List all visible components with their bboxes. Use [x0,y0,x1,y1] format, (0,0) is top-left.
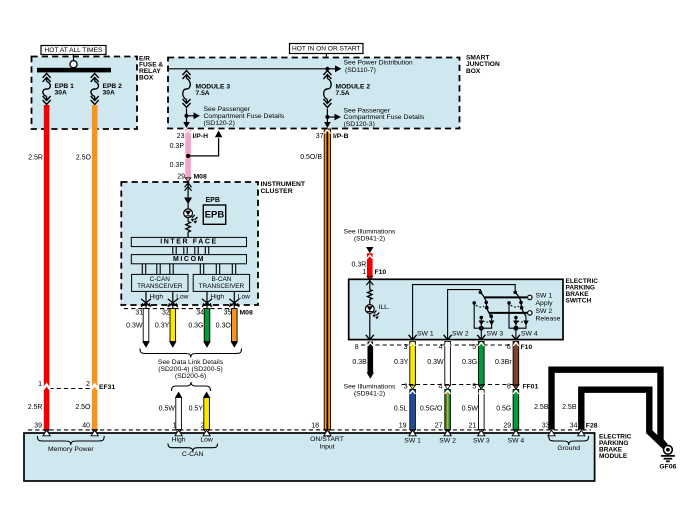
svg-text:TRANSCEIVER: TRANSCEIVER [137,283,183,290]
svg-text:F10: F10 [375,269,387,276]
wire 0.5W C-CAN high [159,392,183,434]
bus lines interface to micom [173,247,209,255]
svg-text:4: 4 [439,384,443,391]
svg-text:0.3Br: 0.3Br [495,359,512,366]
svg-text:SW 3: SW 3 [487,331,504,338]
svg-text:0.3G: 0.3G [188,323,203,330]
svg-text:ILL.: ILL. [379,304,390,311]
wire 0.3Y data link [155,309,177,348]
svg-text:High: High [211,293,225,300]
svg-text:0.5L: 0.5L [394,405,408,412]
svg-text:0.3B: 0.3B [352,359,367,366]
svg-text:GF06: GF06 [659,463,676,470]
pin 1 connector F10 top [362,269,386,276]
svg-text:High: High [172,436,186,443]
brace C-CAN from data link [172,382,211,391]
svg-text:INTER FACE: INTER FACE [160,239,218,246]
wire 0.3W switch SW2 [427,342,450,390]
wire from label to junction box [325,54,327,59]
svg-text:C-CAN: C-CAN [150,276,171,283]
wire 0.3G switch SW3 [462,342,484,390]
wire 0.5O/B pin 37 to module pin 18 [300,129,330,434]
svg-text:SW 2: SW 2 [452,331,469,338]
label HOT AT ALL TIMES [41,46,106,55]
switch internal wire SW2 [444,290,481,340]
svg-text:HOT IN ON OR START: HOT IN ON OR START [292,45,361,52]
svg-text:(SD941-2): (SD941-2) [354,236,385,243]
wire 0.5Y C-CAN low [189,392,211,434]
svg-text:Low: Low [200,436,213,443]
svg-text:I/P-B: I/P-B [333,133,349,140]
svg-text:6: 6 [507,384,511,391]
svg-text:See Data Link Details: See Data Link Details [158,359,224,366]
svg-text:1: 1 [38,381,42,388]
svg-text:30A: 30A [55,90,67,97]
svg-text:0.3W: 0.3W [427,359,444,366]
EPB telltale symbol [203,197,225,224]
wire module 3 fuse to pin 23 [183,109,190,129]
fuse EPB 2 30A [91,73,122,104]
pin 37 connector I/P-B [316,133,349,140]
svg-text:3: 3 [404,344,408,351]
svg-text:TRANSCEIVER: TRANSCEIVER [199,283,245,290]
svg-text:0.5G/O: 0.5G/O [420,405,443,412]
C-CAN high low labels [168,436,218,458]
svg-text:B-CAN: B-CAN [211,276,231,283]
svg-text:(SD200-6): (SD200-6) [175,373,206,380]
svg-text:Input: Input [319,443,334,450]
svg-text:See Power Distribution: See Power Distribution [344,60,413,67]
svg-text:0.3P: 0.3P [170,162,185,169]
node on 0.3P with arrow [186,131,222,158]
wire 0.5G to module SW4 [496,390,518,434]
svg-text:F28: F28 [586,422,598,429]
svg-text:27: 27 [435,422,443,429]
svg-text:0.3G: 0.3G [462,359,477,366]
svg-text:0.3Y: 0.3Y [394,359,409,366]
connector M08 cluster [124,309,253,317]
ground brace [549,436,589,452]
svg-text:High: High [150,293,164,300]
node see power distribution [325,60,413,74]
svg-text:Release: Release [536,316,561,323]
svg-text:See Illuminations: See Illuminations [344,383,396,390]
svg-text:2: 2 [201,422,205,429]
svg-text:Memory Power: Memory Power [48,446,94,453]
bus lines micom to transceivers [142,264,235,275]
svg-text:30A: 30A [103,90,115,97]
svg-text:INSTRUMENT: INSTRUMENT [261,181,306,188]
module connector pin line [28,429,591,431]
switch internal wire SW4 [512,328,538,340]
svg-text:FF01: FF01 [523,383,539,390]
svg-text:C-CAN: C-CAN [182,451,204,458]
svg-text:HOT AT ALL TIMES: HOT AT ALL TIMES [45,47,104,54]
svg-text:33: 33 [542,422,550,429]
wire 0.3R illumination to switch pin 1 [352,253,373,280]
switch contact group right [507,291,529,331]
brace see data link details [140,349,242,381]
resistor in cluster [186,218,191,238]
svg-text:5: 5 [472,344,476,351]
terminal SW 1 Apply [484,293,553,308]
svg-text:SW 4: SW 4 [508,438,525,445]
svg-text:BOX: BOX [466,68,481,75]
illumination resistor in switch [366,279,373,304]
wire 2.5R EPB1 to module pin 39 [28,105,50,434]
wire 0.3P pin23 to cluster pin 29 [170,129,191,182]
wire ILL to pin 8 [366,313,374,340]
switch contact group left [472,291,494,331]
svg-text:1: 1 [173,422,177,429]
memory power brace [37,436,104,453]
svg-text:MODULE: MODULE [599,453,628,460]
svg-text:CLUSTER: CLUSTER [261,188,293,195]
cluster CAN output wires with twist marks [141,291,250,308]
svg-text:2.5O: 2.5O [76,155,92,162]
ground GF06 [659,445,676,470]
svg-text:SW 2: SW 2 [536,308,553,315]
see illuminations feed arrow [344,229,396,254]
svg-text:23: 23 [177,133,185,140]
svg-text:I/P-H: I/P-H [193,133,209,140]
svg-text:34: 34 [570,422,578,429]
bus bar [37,61,111,73]
wire 2.5B ground inner [562,390,665,447]
svg-text:F10: F10 [521,344,533,351]
svg-text:5: 5 [472,384,476,391]
svg-text:0.3Y: 0.3Y [155,323,170,330]
svg-text:(SD941-2): (SD941-2) [354,390,385,397]
svg-text:19: 19 [399,422,407,429]
svg-text:SW 1: SW 1 [536,293,553,300]
svg-text:2.5B: 2.5B [534,404,549,411]
smart junction box [168,55,500,129]
svg-text:31: 31 [135,310,143,317]
svg-text:0.3P: 0.3P [170,143,185,150]
svg-text:SW 1: SW 1 [417,331,434,338]
svg-text:SW 1: SW 1 [404,438,421,445]
fuse MODULE 3 7.5A [183,71,231,108]
svg-text:8: 8 [355,344,359,351]
svg-text:6: 6 [507,344,511,351]
svg-text:See Illuminations: See Illuminations [344,229,396,236]
B-CAN transceiver block [193,274,249,291]
C-CAN transceiver block [132,274,188,291]
svg-text:M08: M08 [240,310,253,317]
instrument cluster box [121,181,306,305]
on/start input label [310,436,344,451]
svg-text:2.5B: 2.5B [562,404,577,411]
bus wire in junction box [168,68,327,70]
svg-text:0.3O: 0.3O [216,323,232,330]
switch internal wire SW1 [409,285,516,340]
connector F10 bottom [355,344,533,351]
wire from label to bus bar [73,55,75,63]
wire module 2 fuse to pin 37 [324,109,331,129]
svg-text:7.5A: 7.5A [336,90,350,97]
svg-text:0.5W: 0.5W [462,405,479,412]
node see passenger compartment fuse details SD120-2 [184,106,285,127]
svg-text:0.5G: 0.5G [496,405,511,412]
svg-text:37: 37 [316,133,324,140]
svg-text:MICOM: MICOM [173,256,205,263]
svg-text:EF31: EF31 [99,384,115,391]
electric parking brake module box [24,433,632,481]
connector FF01 [402,383,539,390]
svg-text:EPB: EPB [206,197,220,204]
svg-text:3: 3 [404,384,408,391]
wire 0.5L to module SW1 [394,390,416,434]
svg-text:0.3W: 0.3W [126,323,143,330]
LED ILL in switch [365,304,390,319]
pin 29 connector M08 [177,174,207,181]
wire 2.5O EPB2 to module pin 40 [75,105,97,434]
svg-text:40: 40 [82,422,90,429]
svg-text:SW 2: SW 2 [439,438,456,445]
fuse MODULE 2 7.5A [323,71,370,108]
terminal SW 2 Release [489,308,560,323]
wire 0.3B to illuminations [344,342,396,398]
wire 2.5B ground outer [534,370,665,447]
label HOT IN ON OR START [290,44,364,54]
svg-text:2.5R: 2.5R [28,404,43,411]
svg-text:M08: M08 [194,174,207,181]
svg-text:Ground: Ground [557,445,580,452]
svg-text:1: 1 [362,269,366,276]
INTER FACE block [131,237,246,246]
svg-text:35: 35 [224,310,232,317]
svg-text:(SD200-4) (SD200-5): (SD200-4) (SD200-5) [158,366,223,373]
connector EF31 [38,381,115,391]
svg-text:2.5O: 2.5O [75,404,91,411]
svg-text:2: 2 [86,381,90,388]
diode arrow [184,198,192,205]
svg-text:2.5R: 2.5R [28,155,43,162]
wire 0.3Y switch SW1 [394,342,415,390]
module entry notches [43,430,585,436]
svg-text:34: 34 [196,310,204,317]
svg-text:4: 4 [439,344,443,351]
svg-text:(SD110-7): (SD110-7) [345,67,376,74]
E/R fuse & relay box [32,55,164,129]
svg-text:0.3R: 0.3R [352,262,367,269]
svg-text:21: 21 [469,422,477,429]
svg-text:29: 29 [503,422,511,429]
svg-text:SW 3: SW 3 [473,438,490,445]
node see passenger compartment fuse details SD120-3 [325,107,425,128]
svg-text:0.5W: 0.5W [159,406,176,413]
switch internal wire SW3 [477,328,503,340]
wire into cluster [185,182,192,209]
svg-text:SWITCH: SWITCH [566,298,592,305]
wire 0.5G/O to module SW2 [420,390,451,434]
svg-text:Low: Low [238,293,250,300]
svg-text:32: 32 [162,310,170,317]
svg-text:(SD120-2): (SD120-2) [204,120,235,127]
svg-text:29: 29 [177,174,185,181]
svg-text:0.5O/B: 0.5O/B [300,154,322,161]
wire 0.3G data link [188,309,210,348]
wire 0.3Br switch SW4 [495,342,519,390]
svg-text:0.5Y: 0.5Y [189,406,204,413]
wire 0.5W to module SW3 [462,390,484,434]
svg-text:EPB: EPB [205,210,225,221]
fuse EPB 1 30A [43,73,75,104]
svg-text:Low: Low [176,293,188,300]
svg-text:BOX: BOX [139,74,154,81]
svg-text:18: 18 [311,422,319,429]
pin 23 connector I/P-H [177,133,208,140]
MICOM block [131,255,246,264]
svg-text:(SD120-3): (SD120-3) [344,121,375,128]
module SW labels [404,438,524,445]
svg-text:39: 39 [34,422,42,429]
svg-text:7.5A: 7.5A [196,90,210,97]
electric parking brake switch box [349,278,599,339]
wire 0.3O data link [216,309,238,348]
LED indicator EPB [184,209,198,224]
svg-text:Apply: Apply [536,300,554,307]
wire 0.3W data link [126,309,150,348]
svg-text:SW 4: SW 4 [521,331,538,338]
svg-text:ON/START: ON/START [310,436,344,443]
